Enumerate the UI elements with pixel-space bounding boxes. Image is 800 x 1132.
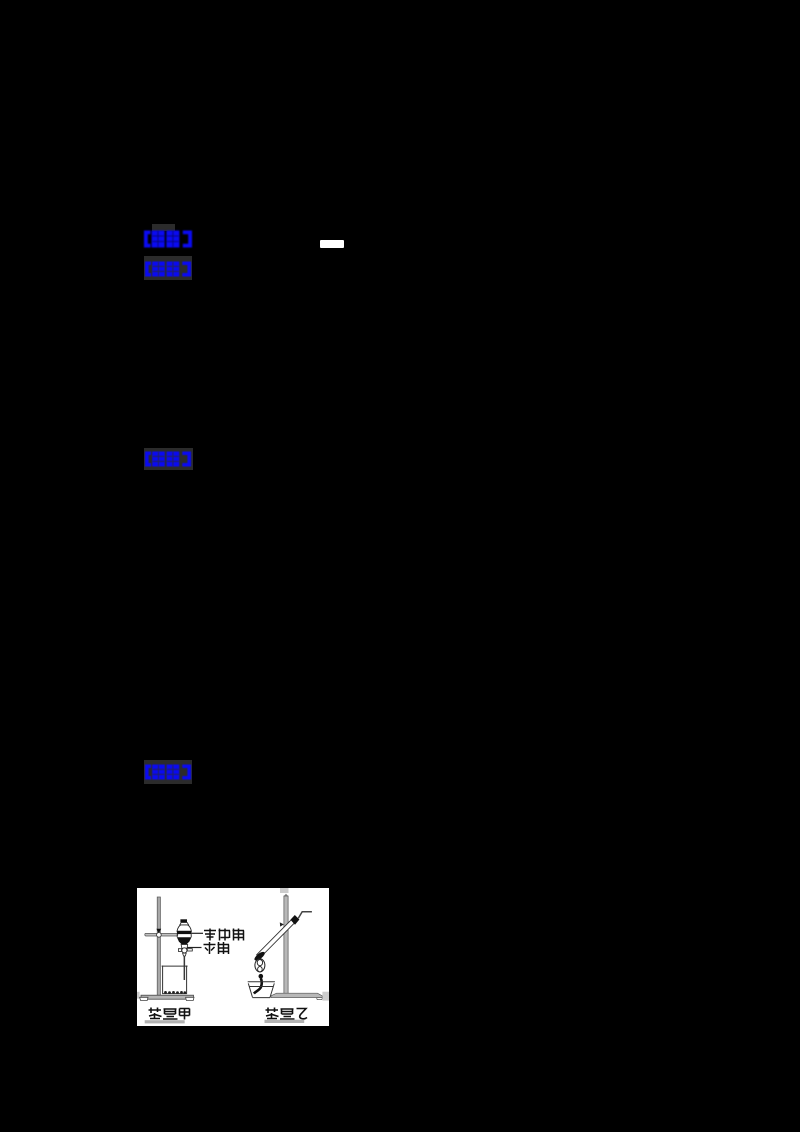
clamp arm A — [144, 933, 177, 936]
funnel stem — [183, 956, 185, 980]
stopper B (black) — [290, 915, 299, 925]
gray remnant above answer tag — [152, 224, 175, 231]
clamp arrow B — [279, 922, 283, 926]
caption B: 装置乙 (pseudo CJK) — [265, 1008, 307, 1020]
funnel neck — [179, 923, 188, 925]
caption A underline band — [144, 1020, 184, 1023]
beaker contents (lumps) — [164, 991, 186, 994]
详解 tag (blue) — [145, 451, 191, 472]
white band — [177, 934, 191, 937]
分析 tag gray box — [144, 256, 192, 280]
label water phase (pseudo CJK) — [203, 942, 229, 954]
drip squiggle — [253, 978, 261, 993]
funnel bulb dome — [177, 925, 191, 931]
stand rod A — [157, 897, 160, 996]
chemistry figure — [137, 888, 329, 1026]
leader line water — [187, 947, 201, 949]
caption B underline band — [264, 1020, 304, 1023]
点睛 tag gray box — [144, 760, 192, 784]
详解 tag gray box — [144, 448, 193, 470]
dish (white fill) — [247, 982, 274, 998]
ground joint — [181, 945, 188, 949]
evaporating dish outline — [247, 982, 274, 998]
hanging loops — [254, 959, 264, 972]
test tube (tilted) — [256, 917, 296, 958]
knob — [258, 974, 263, 979]
caption A: 装置甲 (pseudo CJK) — [148, 1008, 189, 1020]
stand rod B — [283, 894, 287, 896]
left base sliver — [137, 992, 140, 999]
分析 tag (blue) — [145, 261, 191, 282]
separating funnel stopper — [180, 919, 187, 922]
base A — [141, 995, 194, 999]
答案 tag (blue, bold) — [144, 230, 192, 253]
stopcock — [178, 949, 181, 952]
water phase cone (black) — [176, 937, 191, 944]
funnel tip — [182, 953, 186, 956]
right gray patch — [322, 992, 329, 1001]
clamp knob A — [156, 929, 161, 934]
top sliver — [280, 888, 289, 893]
label organic phase (pseudo CJK) — [204, 929, 244, 941]
white inline formula box — [320, 240, 344, 248]
tube mouth rim (black) — [253, 950, 266, 962]
leader line organic — [191, 932, 202, 934]
beaker A — [161, 966, 187, 994]
点睛 tag (blue) — [145, 764, 191, 785]
organic phase band (black) — [176, 931, 191, 934]
delivery tube — [298, 912, 312, 919]
base B — [271, 993, 322, 998]
